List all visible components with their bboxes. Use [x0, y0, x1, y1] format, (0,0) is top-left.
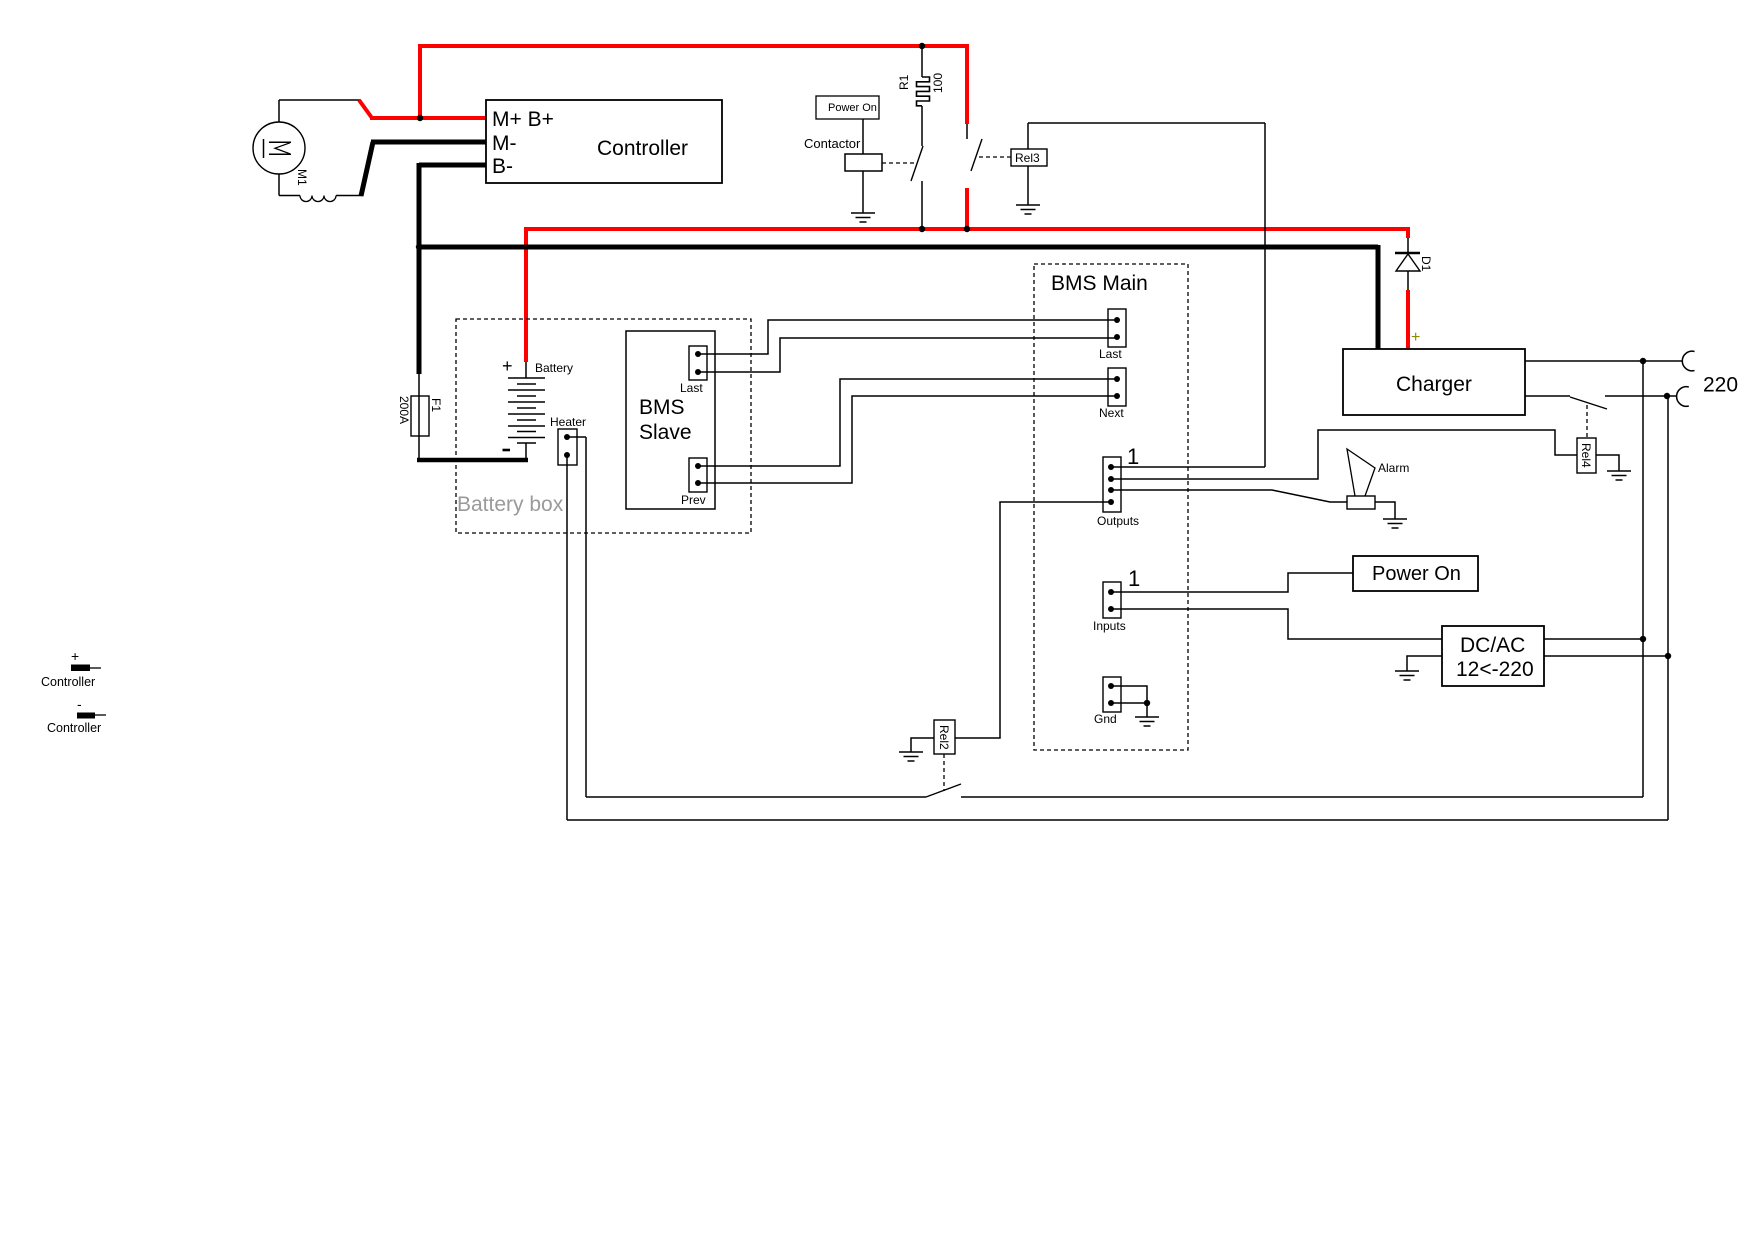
wire heater pin2 down: [566, 455, 568, 820]
wire Rel4 to ground: [1596, 455, 1619, 471]
contactor switch 1 blade: [911, 146, 923, 181]
junction DC/AC row2: [1665, 653, 1671, 659]
motor M1: [253, 122, 309, 186]
connector Outputs: [1097, 444, 1139, 528]
ground Rel4: [1607, 471, 1631, 480]
wire black negative rail: [417, 245, 1378, 250]
wire slave Prev1 to main Next1: [698, 379, 1117, 466]
svg-text:Controller: Controller: [597, 137, 688, 160]
wire M- thick: [361, 142, 486, 196]
junction DC/AC row1: [1640, 636, 1646, 642]
Power On box (contactor coil drive): [816, 96, 879, 119]
dashed link coil to contactor switch 1: [882, 162, 914, 164]
battery B1: [502, 356, 573, 458]
wire red D1 to charger: [1406, 290, 1410, 349]
wire Inputs pin1 to Power On: [1111, 573, 1353, 592]
BMS Main dashed outline: [1034, 264, 1188, 750]
connector Last (main): [1099, 309, 1126, 361]
svg-text:1: 1: [1128, 566, 1140, 591]
DC/AC converter box: [1442, 626, 1544, 686]
switch Rel2 blade: [926, 784, 961, 797]
legend controller plus terminal: [41, 648, 101, 689]
svg-text:BMS: BMS: [639, 396, 685, 419]
svg-text:DC/AC: DC/AC: [1460, 634, 1525, 657]
wire black drop to charger: [1376, 245, 1381, 349]
junction black rail / B-: [416, 244, 422, 250]
svg-text:R1: R1: [897, 74, 911, 90]
svg-text:200A: 200A: [397, 396, 411, 424]
wire motor top to M+: [279, 100, 360, 122]
wire Gnd pins to ground: [1111, 686, 1150, 717]
svg-text:Inputs: Inputs: [1093, 619, 1126, 633]
dashed link switch 2 to Rel3: [979, 156, 1011, 158]
contactor switch 2 (main): [967, 124, 982, 171]
svg-text:+: +: [71, 648, 79, 664]
junction red M+ node: [417, 115, 423, 121]
svg-text:F1: F1: [429, 398, 443, 412]
ground BMS Gnd: [1135, 717, 1159, 726]
wire DC/AC output row1: [1544, 638, 1643, 640]
svg-text:B-: B-: [492, 155, 513, 178]
wire coil to ground: [862, 171, 864, 213]
svg-text:100: 100: [931, 73, 945, 93]
wire heater pin1 down: [567, 437, 586, 797]
junction red rail / R1 branch: [919, 226, 925, 232]
alarm buzzer: [1347, 449, 1409, 509]
BMS Slave box: [626, 331, 715, 509]
svg-text:220: 220: [1703, 374, 1738, 397]
svg-text:Rel2: Rel2: [937, 725, 951, 750]
svg-text:Charger: Charger: [1396, 373, 1472, 396]
AC plug pin 1: [1682, 351, 1694, 371]
svg-text:Controller: Controller: [41, 675, 95, 689]
svg-text:Last: Last: [680, 381, 703, 395]
wire outer bottom rail (heater pin2 to 220 row): [567, 396, 1668, 820]
wire red battery rail: [526, 227, 1409, 231]
ground Rel2: [899, 752, 923, 761]
svg-text:Heater: Heater: [550, 415, 586, 429]
svg-text:Outputs: Outputs: [1097, 514, 1139, 528]
wire DC/AC output row2: [1544, 655, 1668, 657]
svg-text:Rel4: Rel4: [1579, 443, 1593, 468]
svg-text:+: +: [1411, 329, 1420, 346]
svg-text:12<-220: 12<-220: [1456, 658, 1534, 681]
svg-text:Slave: Slave: [639, 421, 692, 444]
wire DC/AC to ground: [1407, 656, 1442, 671]
connector Last (slave): [680, 346, 707, 395]
junction charger line1 / DCAC vertical: [1640, 358, 1646, 364]
charger box: [1343, 349, 1525, 415]
svg-text:M-: M-: [492, 132, 517, 155]
svg-text:Controller: Controller: [47, 721, 101, 735]
diode D1: [1395, 227, 1433, 290]
ground Rel3: [1016, 205, 1040, 214]
svg-text:Last: Last: [1099, 347, 1122, 361]
connector Next (main): [1099, 368, 1126, 420]
svg-text:D1: D1: [1419, 256, 1433, 272]
svg-text:Rel3: Rel3: [1015, 151, 1040, 165]
wire slave Last1 to main Last1: [698, 320, 1117, 354]
svg-text:M+ B+: M+ B+: [492, 108, 554, 131]
svg-text:-: -: [77, 696, 82, 712]
svg-text:BMS Main: BMS Main: [1051, 272, 1148, 295]
wire red right drop to contactor switch: [965, 44, 969, 124]
svg-text:Battery box: Battery box: [457, 493, 564, 516]
svg-text:+: +: [502, 356, 513, 376]
svg-text:Gnd: Gnd: [1094, 712, 1117, 726]
wire Outputs pin4 to Rel2: [955, 502, 1111, 738]
wire B- thick: [419, 163, 486, 374]
ground DC/AC: [1395, 671, 1419, 680]
wire motor bottom with inductor to M-: [279, 174, 362, 202]
dashed link Rel4 to switch: [1586, 405, 1588, 438]
wire R1 to switch: [921, 106, 923, 146]
Power On box (output): [1353, 556, 1478, 591]
svg-text:Power On: Power On: [1372, 563, 1461, 585]
fuse F1 200A: [397, 374, 443, 460]
wire battery minus thick bar: [417, 458, 528, 463]
relay Rel2: [934, 720, 955, 754]
connector Gnd: [1094, 677, 1121, 726]
wire red from switch to rail: [965, 188, 969, 231]
svg-text:Prev: Prev: [681, 493, 706, 507]
wire Rel3 coil to Outputs pin1: [1028, 123, 1265, 467]
wire charger AC line 1: [1525, 360, 1683, 362]
relay Rel4: [1577, 438, 1596, 473]
wire red top rail: [418, 44, 967, 48]
wire Inputs pin2 to DC/AC: [1111, 609, 1442, 639]
svg-text:1: 1: [1127, 444, 1139, 469]
wire Rel3 to ground: [1027, 166, 1029, 205]
svg-text:Power On: Power On: [828, 102, 877, 114]
resistor R1: [897, 46, 945, 106]
svg-text:Next: Next: [1099, 406, 1124, 420]
junction charger line2 / 220 vertical: [1664, 393, 1670, 399]
wire Rel2 to ground: [911, 738, 934, 752]
ground contactor: [851, 213, 875, 222]
junction on top rail at R1: [919, 43, 925, 49]
relay Rel3: [1011, 149, 1047, 166]
ground alarm: [1383, 519, 1407, 528]
controller U: box: [486, 100, 722, 183]
wire Power On to contactor coil: [862, 119, 864, 154]
wire M+ red feed: [359, 46, 486, 120]
wire Outputs pin2 to Rel4: [1111, 430, 1577, 479]
AC plug pin 2: [1677, 387, 1689, 407]
wire inner bottom rail (heater pin1 to DC/AC row): [586, 361, 1643, 797]
connector Prev (slave): [681, 458, 707, 507]
dashed link Rel2 to switch: [943, 754, 945, 791]
svg-text:Alarm: Alarm: [1378, 461, 1409, 475]
wire slave Prev2 to main Next2: [698, 396, 1117, 483]
svg-text:Contactor: Contactor: [804, 136, 861, 151]
wire switch 1 to red rail: [921, 181, 923, 229]
connector Heater: [550, 415, 586, 465]
svg-text:M1: M1: [295, 169, 309, 186]
wire alarm to ground: [1375, 502, 1395, 519]
wire red battery drop: [524, 227, 528, 362]
svg-text:Battery: Battery: [535, 361, 573, 375]
contactor coil: [804, 136, 882, 171]
connector Inputs: [1093, 566, 1140, 633]
legend controller minus terminal: [47, 696, 106, 735]
battery box dashed outline: [456, 319, 751, 533]
wire slave Last2 to main Last2: [698, 338, 1117, 372]
wire Outputs pin3 to Alarm: [1111, 490, 1347, 502]
junction red rail / contactor branch: [964, 226, 970, 232]
wire charger AC line 2 with switch: [1525, 396, 1677, 409]
